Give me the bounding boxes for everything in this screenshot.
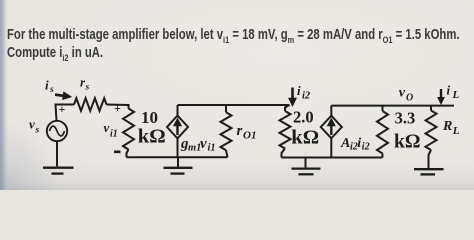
- wire RL top lead: [430, 106, 432, 111]
- svg-text:A: A: [340, 136, 350, 151]
- wire R2 bottom lead: [282, 149, 286, 158]
- wire RL bottom lead: [429, 150, 432, 168]
- svg-text:i2: i2: [362, 141, 370, 152]
- label rs: [80, 75, 90, 93]
- current label ii2: [297, 83, 311, 101]
- svg-text:O1: O1: [243, 130, 256, 142]
- current label is: [45, 78, 54, 96]
- svg-text:i: i: [357, 136, 361, 151]
- svg-text:s: s: [35, 125, 40, 135]
- value label 2.0 kOhm: [291, 107, 319, 148]
- problem statement line 1: [7, 27, 460, 46]
- wire R3 top lead: [382, 106, 384, 111]
- svg-text:kΩ: kΩ: [394, 131, 420, 152]
- wire stage2 bottom rail: [282, 157, 383, 159]
- svg-text:kΩ: kΩ: [291, 127, 319, 149]
- wire vo top rail (node C): [331, 105, 454, 107]
- ground G1: [43, 168, 74, 174]
- svg-text:v: v: [29, 117, 35, 132]
- value label 10 kOhm: [138, 108, 166, 147]
- current arrow is: [54, 90, 72, 101]
- label RL: [442, 119, 460, 137]
- label vi1: [104, 120, 118, 140]
- svg-text:s: s: [85, 83, 90, 93]
- voltage source vs: [47, 121, 67, 141]
- label rO1: [237, 123, 257, 142]
- svg-text:i: i: [447, 83, 451, 98]
- resistor rs: [74, 98, 107, 111]
- label vo: [399, 86, 413, 104]
- dependent source U2 Ai2ii2 diamond: [321, 116, 342, 139]
- resistor R1 10k: [123, 109, 134, 150]
- wire R3 bottom lead: [382, 154, 384, 158]
- wire U2 bottom stem: [330, 138, 332, 157]
- wire stage1 top rail (node B): [178, 104, 290, 106]
- svg-text:L: L: [452, 89, 460, 101]
- svg-text:O: O: [406, 92, 413, 103]
- label Ai2ii2: [340, 136, 370, 153]
- ground G3: [292, 169, 321, 175]
- wire rO1 bottom lead: [226, 150, 228, 157]
- svg-text:i: i: [45, 78, 49, 93]
- svg-text:i1: i1: [110, 128, 118, 139]
- svg-text:10: 10: [141, 108, 158, 127]
- problem statement line 2: [7, 45, 103, 64]
- svg-text:i1: i1: [208, 143, 216, 154]
- svg-text:v: v: [200, 136, 207, 152]
- wire R1 bottom to stage1 rail: [127, 150, 129, 158]
- wire rail to R2 top: [285, 105, 290, 111]
- ground G4: [414, 169, 444, 174]
- wire U1 bottom stem: [177, 138, 179, 157]
- svg-text:2.0: 2.0: [293, 107, 314, 126]
- ground G2 stem: [177, 157, 179, 167]
- svg-text:3.3: 3.3: [395, 108, 416, 127]
- svg-text:i: i: [297, 83, 301, 98]
- svg-text:v: v: [104, 120, 110, 135]
- wire rs to R1 top: [107, 105, 129, 109]
- resistor R2 2.0k: [280, 111, 291, 149]
- svg-text:r: r: [237, 123, 243, 139]
- ground G2: [164, 168, 193, 174]
- resistor RL: [426, 111, 437, 151]
- current label iL: [447, 83, 460, 101]
- ground G3 stem: [305, 158, 307, 168]
- svg-text:i2: i2: [302, 90, 311, 101]
- svg-text:+: +: [114, 101, 121, 115]
- wire vs-top to rs: [56, 105, 75, 121]
- wire U2 top stem: [330, 106, 332, 116]
- resistor R3 3.3k: [377, 111, 388, 154]
- value label 3.3 kOhm: [394, 108, 420, 152]
- resistor rO1: [221, 112, 232, 150]
- label gm1vi1: [180, 136, 216, 154]
- svg-text:kΩ: kΩ: [138, 125, 166, 147]
- wire stage1 bottom rail: [127, 156, 228, 158]
- svg-text:s: s: [49, 85, 54, 95]
- svg-text:v: v: [399, 86, 406, 101]
- label vs: [29, 117, 40, 136]
- minus sign vi1: [114, 151, 121, 154]
- svg-text:L: L: [452, 125, 460, 137]
- svg-text:+: +: [59, 102, 66, 116]
- wire rO1 top lead: [225, 105, 227, 112]
- current arrow ii2: [288, 88, 297, 108]
- dependent source U1 gm1vi1 diamond: [167, 116, 188, 139]
- wire U1 top stem: [177, 105, 179, 116]
- current arrow iL: [437, 89, 445, 105]
- svg-text:R: R: [442, 119, 452, 134]
- wire vs-bottom: [56, 141, 58, 166]
